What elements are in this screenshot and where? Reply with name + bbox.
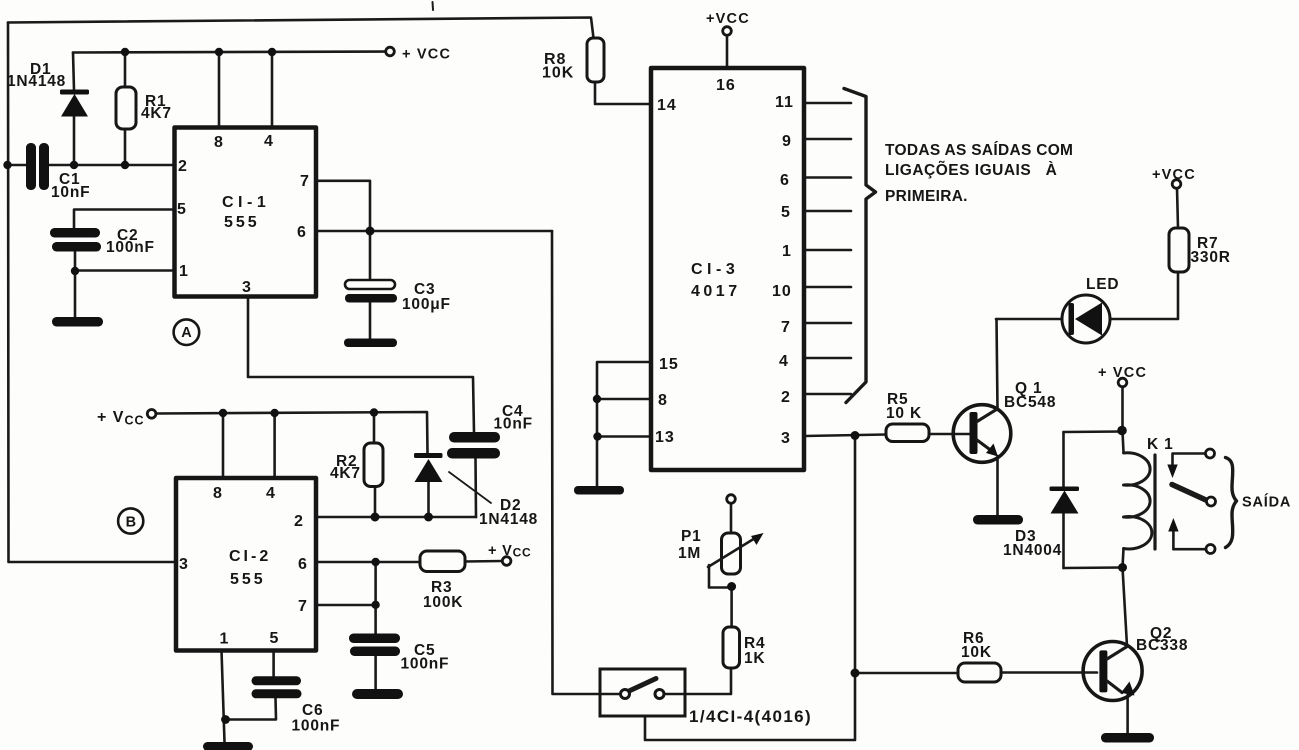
svg-text:+ VCC: + VCC — [488, 543, 532, 560]
svg-text:100nF: 100nF — [401, 656, 450, 673]
svg-text:1K: 1K — [744, 650, 765, 667]
svg-text:3: 3 — [242, 279, 252, 296]
svg-text:1N4148: 1N4148 — [7, 73, 66, 90]
svg-text:+VCC: +VCC — [706, 11, 750, 27]
svg-text:2: 2 — [781, 389, 791, 406]
svg-text:+ VCC: + VCC — [97, 409, 145, 428]
svg-text:7: 7 — [300, 173, 310, 190]
svg-text:16: 16 — [716, 77, 736, 94]
svg-text:4K7: 4K7 — [141, 105, 172, 122]
svg-text:100nF: 100nF — [106, 239, 155, 256]
svg-text:10 K: 10 K — [886, 405, 922, 422]
svg-text:1: 1 — [179, 263, 189, 280]
svg-text:B: B — [126, 514, 136, 530]
svg-text:LIGAÇÕES IGUAIS À: LIGAÇÕES IGUAIS À — [885, 161, 1057, 179]
svg-text:10nF: 10nF — [51, 184, 90, 201]
svg-text:100K: 100K — [423, 594, 463, 611]
svg-text:1: 1 — [220, 631, 230, 648]
svg-text:CI-2: CI-2 — [229, 548, 271, 565]
svg-text:1N4148: 1N4148 — [479, 511, 538, 528]
svg-text:8: 8 — [214, 134, 224, 151]
svg-text:C6: C6 — [302, 702, 323, 719]
svg-text:100μF: 100μF — [402, 296, 451, 313]
svg-text:13: 13 — [655, 429, 675, 446]
svg-text:10K: 10K — [961, 644, 992, 661]
svg-text:BC548: BC548 — [1004, 394, 1056, 411]
svg-text:14: 14 — [657, 97, 677, 114]
svg-text:7: 7 — [298, 598, 308, 615]
svg-text:6: 6 — [297, 224, 307, 241]
svg-text:4: 4 — [779, 353, 789, 370]
svg-text:4: 4 — [264, 133, 274, 150]
svg-text:7: 7 — [781, 319, 791, 336]
svg-text:1N4004: 1N4004 — [1003, 542, 1062, 559]
svg-text:SAÍDA: SAÍDA — [1242, 494, 1291, 511]
svg-text:555: 555 — [224, 214, 260, 231]
svg-text:2: 2 — [178, 158, 188, 175]
svg-text:K 1: K 1 — [1147, 436, 1174, 453]
svg-text:10nF: 10nF — [494, 416, 533, 433]
svg-text:9: 9 — [782, 133, 792, 150]
svg-text:5: 5 — [177, 201, 187, 218]
svg-text:5: 5 — [270, 630, 280, 647]
svg-text:555: 555 — [230, 571, 266, 588]
svg-text:1: 1 — [782, 243, 792, 260]
svg-text:1/4CI-4(4016): 1/4CI-4(4016) — [689, 707, 812, 726]
svg-text:TODAS AS SAÍDAS COM: TODAS AS SAÍDAS COM — [885, 142, 1073, 159]
svg-text:330R: 330R — [1191, 249, 1231, 266]
svg-text:+ VCC: + VCC — [402, 47, 451, 63]
svg-text:P1: P1 — [681, 528, 702, 545]
svg-text:PRIMEIRA.: PRIMEIRA. — [885, 188, 968, 205]
svg-text:4: 4 — [266, 485, 276, 502]
svg-text:+VCC: +VCC — [1152, 167, 1196, 183]
svg-text:1M: 1M — [678, 545, 701, 562]
svg-text:100nF: 100nF — [292, 718, 341, 735]
svg-text:CI-1: CI-1 — [222, 194, 270, 211]
svg-text:6: 6 — [780, 172, 790, 189]
svg-text:CI-3: CI-3 — [691, 261, 739, 278]
svg-text:3: 3 — [179, 556, 189, 573]
svg-text:11: 11 — [775, 94, 794, 111]
svg-text:15: 15 — [659, 356, 679, 373]
svg-text:3: 3 — [781, 430, 791, 447]
svg-text:BC338: BC338 — [1136, 637, 1188, 654]
svg-text:8: 8 — [213, 485, 223, 502]
svg-text:2: 2 — [294, 513, 304, 530]
svg-text:10: 10 — [772, 283, 792, 300]
svg-text:6: 6 — [298, 556, 308, 573]
svg-text:4017: 4017 — [691, 283, 741, 300]
svg-text:5: 5 — [781, 204, 791, 221]
svg-text:10K: 10K — [542, 65, 574, 82]
svg-text:+ VCC: + VCC — [1098, 365, 1147, 381]
svg-text:LED: LED — [1086, 276, 1119, 293]
svg-text:4K7: 4K7 — [330, 465, 361, 482]
svg-text:A: A — [181, 325, 192, 341]
svg-text:8: 8 — [658, 392, 668, 409]
